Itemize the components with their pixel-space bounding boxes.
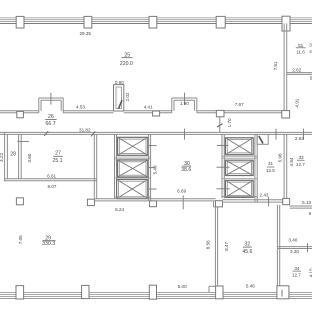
elevator box L3 [117, 179, 148, 198]
svg-text:5.98: 5.98 [278, 153, 283, 162]
room label 32 / 45.6 [242, 241, 252, 255]
bottom wall column A [16, 286, 24, 299]
niche bump 1 (left) [39, 98, 64, 113]
door leaf in duct [119, 100, 122, 108]
bottom wall column D [216, 286, 223, 299]
column at x216 on corridor wall [216, 201, 223, 207]
room label 29 / 330.3 [42, 236, 55, 248]
small jog near bottom [209, 286, 216, 292]
wall: room 51 bottom wall [287, 73, 312, 75]
duct shaft 0.90 x 2.02 [114, 85, 124, 111]
wall: main horizontal y=133 (31.82 wall) [0, 132, 312, 134]
svg-text:32: 32 [244, 241, 250, 247]
svg-text:5.48: 5.48 [152, 165, 157, 174]
wall: 6.61/8.07 wall [5, 179, 97, 181]
right shaft enclosure right wall [255, 134, 257, 202]
dim tick on bump 2 [184, 93, 186, 105]
corridor wall seg1 [95, 199, 216, 201]
room label 31 / 13.5 [266, 161, 275, 173]
svg-text:25.1: 25.1 [52, 158, 62, 164]
wall: long interior wall y=111 (7.97 wall) [0, 111, 282, 113]
door threshold tab [150, 201, 157, 207]
svg-text:0.90: 0.90 [115, 80, 124, 85]
wall: room29/32 divider x=216 [215, 207, 217, 286]
svg-text:7.81: 7.81 [273, 61, 278, 70]
column under y111 wall at x17 [17, 111, 24, 117]
elevator box R3 [225, 180, 253, 197]
dim line 1.70 with slash [219, 117, 221, 132]
svg-text:29.35: 29.35 [79, 31, 91, 36]
svg-text:4.41: 4.41 [144, 105, 153, 110]
shaft L bottom [115, 196, 151, 198]
svg-text:45.6: 45.6 [242, 249, 252, 255]
svg-text:7.97: 7.97 [235, 102, 244, 107]
elevator shaft enclosure right wall [149, 134, 151, 200]
slash tick at x93 [91, 131, 95, 136]
svg-text:51: 51 [298, 43, 304, 48]
bottom wall column E (large) [277, 286, 289, 299]
right shaft enclosure left wall [222, 134, 224, 198]
svg-text:4.84: 4.84 [289, 157, 294, 166]
svg-text:28: 28 [10, 152, 16, 158]
column x89 y200 (end of wall) [87, 199, 94, 205]
room label 27 / 25.1 [52, 150, 62, 164]
svg-text:5.46: 5.46 [246, 283, 255, 288]
svg-text:1.90: 1.90 [180, 101, 189, 106]
tick below 6.69 [182, 195, 184, 209]
top wall column 2 [84, 16, 92, 28]
svg-text:12.7: 12.7 [292, 273, 301, 278]
partial text right edge (cut) [309, 43, 313, 55]
svg-text:3.: 3. [309, 43, 312, 48]
svg-text:2.02: 2.02 [125, 92, 130, 101]
svg-text:13.5: 13.5 [266, 168, 275, 173]
svg-text:2.62: 2.62 [292, 67, 301, 72]
svg-text:2.63: 2.63 [295, 136, 304, 141]
svg-text:8.07: 8.07 [48, 184, 57, 189]
niche bump 2 (1.90) [172, 98, 197, 113]
bottom wall column C [149, 285, 156, 299]
top wall column 5 [282, 16, 290, 31]
tick at x276 [275, 129, 277, 140]
top exterior wall [0, 18, 312, 24]
svg-text:38.6: 38.6 [181, 167, 191, 173]
ticks left of right shaft [217, 145, 230, 188]
svg-text:220.0: 220.0 [120, 61, 133, 67]
svg-text:4.53: 4.53 [76, 105, 85, 110]
svg-text:6.69: 6.69 [177, 189, 186, 194]
svg-text:5.: 5. [310, 76, 312, 81]
room label 25 / 220.0 [120, 53, 133, 67]
svg-text:33: 33 [298, 155, 304, 160]
wall: right wing vertical (room 51 left wall) [284, 23, 287, 111]
tick inside column E [281, 290, 283, 297]
svg-text:5.24: 5.24 [115, 207, 124, 212]
svg-text:330.3: 330.3 [42, 241, 55, 247]
svg-text:3.20: 3.20 [290, 249, 299, 254]
svg-text:2.43: 2.43 [260, 193, 269, 198]
svg-text:6.61: 6.61 [47, 173, 56, 178]
tick at x268.5 [268, 197, 270, 207]
bottom exterior wall [0, 293, 312, 299]
corridor wall right seg4 [290, 206, 312, 208]
svg-text:12.7: 12.7 [296, 162, 305, 167]
svg-text:4: 4 [309, 49, 312, 54]
tick at x303.5 [303, 129, 305, 140]
svg-text:3.40: 3.40 [288, 237, 297, 242]
svg-text:4.91: 4.91 [294, 98, 299, 107]
wall: room 27 right wall / lobby wall [94, 134, 96, 198]
left exterior wall [5, 132, 8, 181]
column under y111 wall at x152 [153, 111, 160, 116]
svg-text:34: 34 [294, 266, 300, 271]
column at x283 on corridor wall [283, 198, 290, 204]
corridor wall seg3 [223, 200, 283, 202]
svg-text:8.56: 8.56 [206, 240, 211, 249]
svg-text:11.6: 11.6 [296, 49, 305, 54]
svg-text:1.70: 1.70 [227, 118, 232, 127]
room label 34 / 12.7 [292, 266, 301, 277]
ticks right of left shaft [149, 146, 157, 189]
separators between R boxes [222, 156, 257, 178]
door alcove top of room 31 [257, 134, 269, 144]
slash tick at x46 [44, 131, 48, 136]
column left standalone x17 y200 [16, 198, 23, 205]
room label 51 / 11.6 [296, 43, 305, 55]
elevator box R1 [225, 138, 253, 155]
wall: 3.40 wall [277, 247, 312, 249]
svg-text:26: 26 [48, 114, 54, 120]
shaft R bottom [222, 196, 257, 198]
svg-text:31.82: 31.82 [79, 127, 91, 132]
svg-text:5.00: 5.00 [178, 284, 187, 289]
svg-text:6: 6 [309, 211, 312, 216]
column terminal x282 (end of 7.97 wall) [282, 111, 290, 118]
svg-text:66.7: 66.7 [46, 121, 56, 127]
dim tick on bump 1 [50, 93, 52, 105]
room label 26 / 66.7 [46, 114, 56, 127]
svg-text:4.15: 4.15 [308, 268, 312, 277]
elevator shaft enclosure left wall [115, 134, 117, 199]
svg-text:27: 27 [55, 150, 61, 156]
svg-text:4.22: 4.22 [0, 152, 4, 161]
top wall column 3 [149, 16, 157, 28]
svg-text:7.05: 7.05 [18, 235, 23, 244]
top wall column 1 [16, 16, 24, 28]
svg-text:5.13: 5.13 [302, 200, 311, 205]
wall: room 28 right wall [19, 134, 22, 178]
wall: room 33 left wall [284, 134, 287, 198]
bottom wall column B [82, 285, 89, 298]
wall: room 32 right wall [277, 205, 279, 286]
elevator box L2 [118, 160, 148, 177]
top wall column 4 [216, 16, 225, 28]
room label 33 / 12.7 [296, 155, 305, 167]
svg-text:3.60: 3.60 [27, 153, 32, 162]
tick at x184.5 [184, 129, 186, 140]
elevator box L1 [118, 137, 148, 155]
svg-text:31: 31 [268, 161, 274, 166]
svg-text:8.47: 8.47 [224, 242, 229, 251]
column under y111 wall at x216 [216, 110, 224, 116]
separators between L boxes [115, 157, 151, 178]
door leaf [259, 136, 263, 143]
elevator box R2 [225, 160, 253, 175]
room label 30 / 38.6 [181, 161, 191, 173]
tick at x307.5 [307, 243, 309, 252]
tick on room28 wall [18, 140, 30, 142]
column lip [214, 201, 216, 206]
